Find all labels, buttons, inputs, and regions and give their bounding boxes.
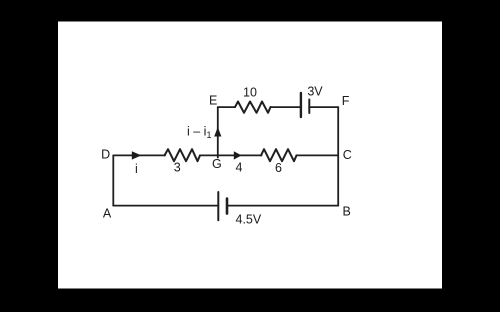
wire R6 to node C <box>297 154 339 156</box>
wire battery B2 to F <box>309 106 338 108</box>
battery B2 short plate <box>308 100 310 114</box>
svg-text:G: G <box>212 157 222 171</box>
svg-text:6: 6 <box>275 161 282 175</box>
wire E to G vertical <box>217 107 219 155</box>
svg-text:A: A <box>103 207 112 221</box>
wire R10 to battery B2 <box>271 106 301 108</box>
resistor R6 (6 ohm) <box>261 149 297 161</box>
svg-text:4: 4 <box>236 160 243 174</box>
svg-text:C: C <box>343 148 352 162</box>
battery B1 long plate <box>217 192 219 220</box>
svg-text:3V: 3V <box>307 84 323 98</box>
wire left vertical D to A <box>112 155 114 205</box>
svg-text:3: 3 <box>174 160 181 174</box>
current arrow i-i1 (G to E branch, pointing up) <box>214 127 221 137</box>
battery B2 long plate <box>300 93 302 117</box>
wire right vertical F to C to B <box>337 107 339 206</box>
current arrow i (D branch) <box>132 151 142 159</box>
wire R3 to G to resistor R6 <box>200 154 262 156</box>
junction tick at node G <box>217 155 219 157</box>
resistor R3 (3 ohm) <box>165 149 201 161</box>
wire D to resistor R3 <box>113 154 165 156</box>
battery B1 short plate <box>226 199 229 214</box>
white schematic panel <box>58 22 442 289</box>
wire E to resistor R10 <box>218 106 235 108</box>
resistor R10 (10 ohm) <box>235 102 271 113</box>
svg-text:10: 10 <box>243 86 257 100</box>
wire bottom A to battery B1 <box>113 205 218 207</box>
svg-text:i: i <box>135 162 138 176</box>
svg-text:E: E <box>209 94 217 108</box>
svg-text:B: B <box>343 205 351 219</box>
current arrow after node G <box>234 151 242 159</box>
svg-text:F: F <box>342 94 350 108</box>
svg-text:4.5V: 4.5V <box>236 213 262 227</box>
wire battery B1 to B <box>227 205 338 207</box>
svg-text:D: D <box>101 148 110 162</box>
